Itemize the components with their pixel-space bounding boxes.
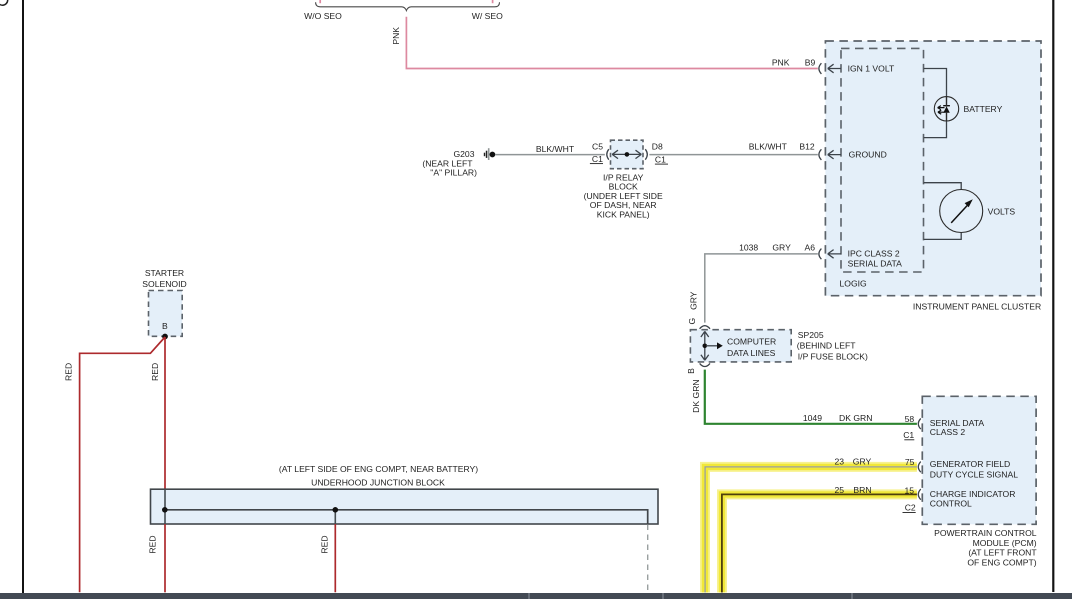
- wire RED below block 2: [334, 524, 336, 592]
- svg-text:CLASS 2: CLASS 2: [930, 427, 966, 437]
- svg-text:BRN: BRN: [853, 485, 871, 495]
- junction dot 1: [162, 507, 168, 513]
- svg-text:RED: RED: [148, 535, 158, 553]
- svg-text:DATA LINES: DATA LINES: [727, 348, 776, 358]
- wire 25 BRN highlighted yellow to pin 15: [722, 494, 917, 592]
- svg-text:LOGIG: LOGIG: [840, 278, 868, 288]
- svg-text:I/P FUSE BLOCK): I/P FUSE BLOCK): [798, 351, 868, 361]
- wire 23 GRY highlighted yellow to pin 75: [705, 467, 917, 593]
- connector pin 75: [918, 462, 921, 473]
- junction dot 2: [333, 507, 339, 513]
- connector A6: [819, 249, 822, 260]
- svg-text:DUTY CYCLE SIGNAL: DUTY CYCLE SIGNAL: [930, 470, 1018, 480]
- svg-text:CHARGE INDICATOR: CHARGE INDICATOR: [930, 489, 1016, 499]
- svg-text:W/ SEO: W/ SEO: [472, 11, 503, 21]
- svg-text:(AT LEFT FRONT: (AT LEFT FRONT: [968, 548, 1037, 558]
- svg-text:IPC CLASS 2: IPC CLASS 2: [848, 248, 900, 258]
- svg-text:PNK: PNK: [391, 27, 401, 45]
- svg-text:GRY: GRY: [688, 291, 698, 310]
- svg-text:D8: D8: [652, 141, 663, 151]
- svg-text:BLK/WHT: BLK/WHT: [749, 142, 788, 152]
- page right border: [1052, 0, 1054, 592]
- svg-text:W/O SEO: W/O SEO: [304, 11, 342, 21]
- svg-text:SERIAL DATA: SERIAL DATA: [848, 259, 903, 269]
- wire PNK stub W/ SEO: [492, 0, 494, 3]
- wire through block 2: [334, 510, 336, 524]
- svg-text:GRY: GRY: [772, 243, 791, 253]
- junction bus: [165, 510, 648, 524]
- instrument panel cluster box: [825, 41, 1041, 296]
- svg-text:(AT LEFT SIDE OF ENG COMPT, NE: (AT LEFT SIDE OF ENG COMPT, NEAR BATTERY…: [279, 464, 478, 474]
- starter solenoid box: [149, 291, 183, 337]
- svg-text:RED: RED: [150, 363, 160, 381]
- svg-text:CONTROL: CONTROL: [930, 499, 972, 509]
- svg-text:INSTRUMENT PANEL CLUSTER: INSTRUMENT PANEL CLUSTER: [913, 302, 1041, 312]
- page left border: [22, 0, 24, 594]
- svg-text:25: 25: [834, 485, 844, 495]
- svg-text:POWERTRAIN CONTROL: POWERTRAIN CONTROL: [934, 528, 1037, 538]
- svg-text:G: G: [687, 317, 697, 324]
- svg-text:DK GRN: DK GRN: [839, 413, 872, 423]
- svg-text:23: 23: [834, 456, 844, 466]
- underhood junction block: [151, 489, 659, 524]
- wire to battery lamp: [924, 69, 947, 138]
- svg-text:RED: RED: [319, 535, 329, 553]
- svg-text:BLK/WHT: BLK/WHT: [536, 144, 575, 154]
- svg-text:"A" PILLAR): "A" PILLAR): [430, 168, 477, 178]
- svg-text:RED: RED: [64, 363, 74, 381]
- svg-text:BATTERY: BATTERY: [964, 104, 1003, 114]
- svg-text:KICK PANEL): KICK PANEL): [597, 209, 650, 219]
- battery indicator lamp: [934, 97, 958, 121]
- svg-text:(BEHIND LEFT: (BEHIND LEFT: [797, 341, 856, 351]
- wire PNK stub W/O SEO: [319, 0, 321, 3]
- IPC logic inner box: [841, 48, 924, 272]
- wire to volts gauge: [924, 183, 962, 240]
- connector SP205 bottom: [700, 363, 710, 366]
- svg-text:DK GRN: DK GRN: [691, 379, 701, 412]
- wire RED down branch: [164, 337, 166, 489]
- wire RED below block 1: [164, 524, 166, 592]
- connector B12: [819, 149, 822, 160]
- svg-text:1038: 1038: [739, 243, 758, 253]
- connector pin 15: [918, 489, 921, 500]
- brace merge W/O SEO / W/ SEO: [316, 2, 500, 10]
- wire 1038 GRY: [705, 254, 818, 323]
- svg-text:C5: C5: [592, 142, 603, 152]
- ground G203: [488, 148, 490, 160]
- svg-text:GROUND: GROUND: [849, 150, 887, 160]
- svg-text:COMPUTER: COMPUTER: [727, 336, 776, 346]
- wire RED left branch: [80, 337, 165, 592]
- svg-text:B12: B12: [799, 142, 815, 152]
- svg-text:B: B: [686, 368, 696, 374]
- I/P relay block: [611, 140, 644, 169]
- svg-text:GRY: GRY: [853, 456, 872, 466]
- svg-text:UNDERHOOD JUNCTION BLOCK: UNDERHOOD JUNCTION BLOCK: [311, 478, 445, 488]
- svg-text:58: 58: [905, 414, 915, 424]
- wire through block 1: [164, 489, 166, 524]
- svg-text:STARTER: STARTER: [145, 268, 184, 278]
- svg-text:15: 15: [904, 486, 914, 496]
- svg-text:B9: B9: [805, 57, 816, 67]
- svg-text:1049: 1049: [803, 413, 822, 423]
- wire PNK to B9: [406, 17, 817, 69]
- svg-text:OF ENG COMPT): OF ENG COMPT): [967, 557, 1036, 567]
- svg-text:75: 75: [905, 457, 915, 467]
- svg-text:A6: A6: [804, 243, 815, 253]
- wire BLK/WHT G203 to relay block: [495, 154, 605, 156]
- corner mark: [0, 0, 8, 5]
- svg-text:PNK: PNK: [772, 57, 790, 67]
- PCM box: [922, 396, 1036, 524]
- svg-text:C2: C2: [905, 503, 916, 513]
- svg-text:GENERATOR FIELD: GENERATOR FIELD: [930, 459, 1010, 469]
- bottom bar: [0, 593, 1072, 599]
- svg-text:C1: C1: [655, 154, 666, 164]
- dashed drop line: [647, 525, 649, 593]
- junction dot B: [162, 334, 168, 340]
- wire BLK/WHT relay to B12: [649, 154, 817, 156]
- svg-text:C1: C1: [903, 430, 914, 440]
- connector B9: [819, 63, 822, 74]
- wire 1049 DK GRN: [705, 370, 917, 424]
- svg-text:SP205: SP205: [798, 330, 824, 340]
- splice pack SP205 box: [690, 330, 791, 362]
- svg-text:IGN 1 VOLT: IGN 1 VOLT: [848, 64, 895, 74]
- svg-text:SOLENOID: SOLENOID: [142, 279, 186, 289]
- svg-text:B: B: [162, 321, 168, 331]
- connector pin 58: [918, 419, 921, 430]
- connector SP205 top: [700, 326, 710, 329]
- svg-text:C1: C1: [592, 154, 603, 164]
- volts gauge: [940, 190, 983, 233]
- svg-text:VOLTS: VOLTS: [988, 206, 1016, 216]
